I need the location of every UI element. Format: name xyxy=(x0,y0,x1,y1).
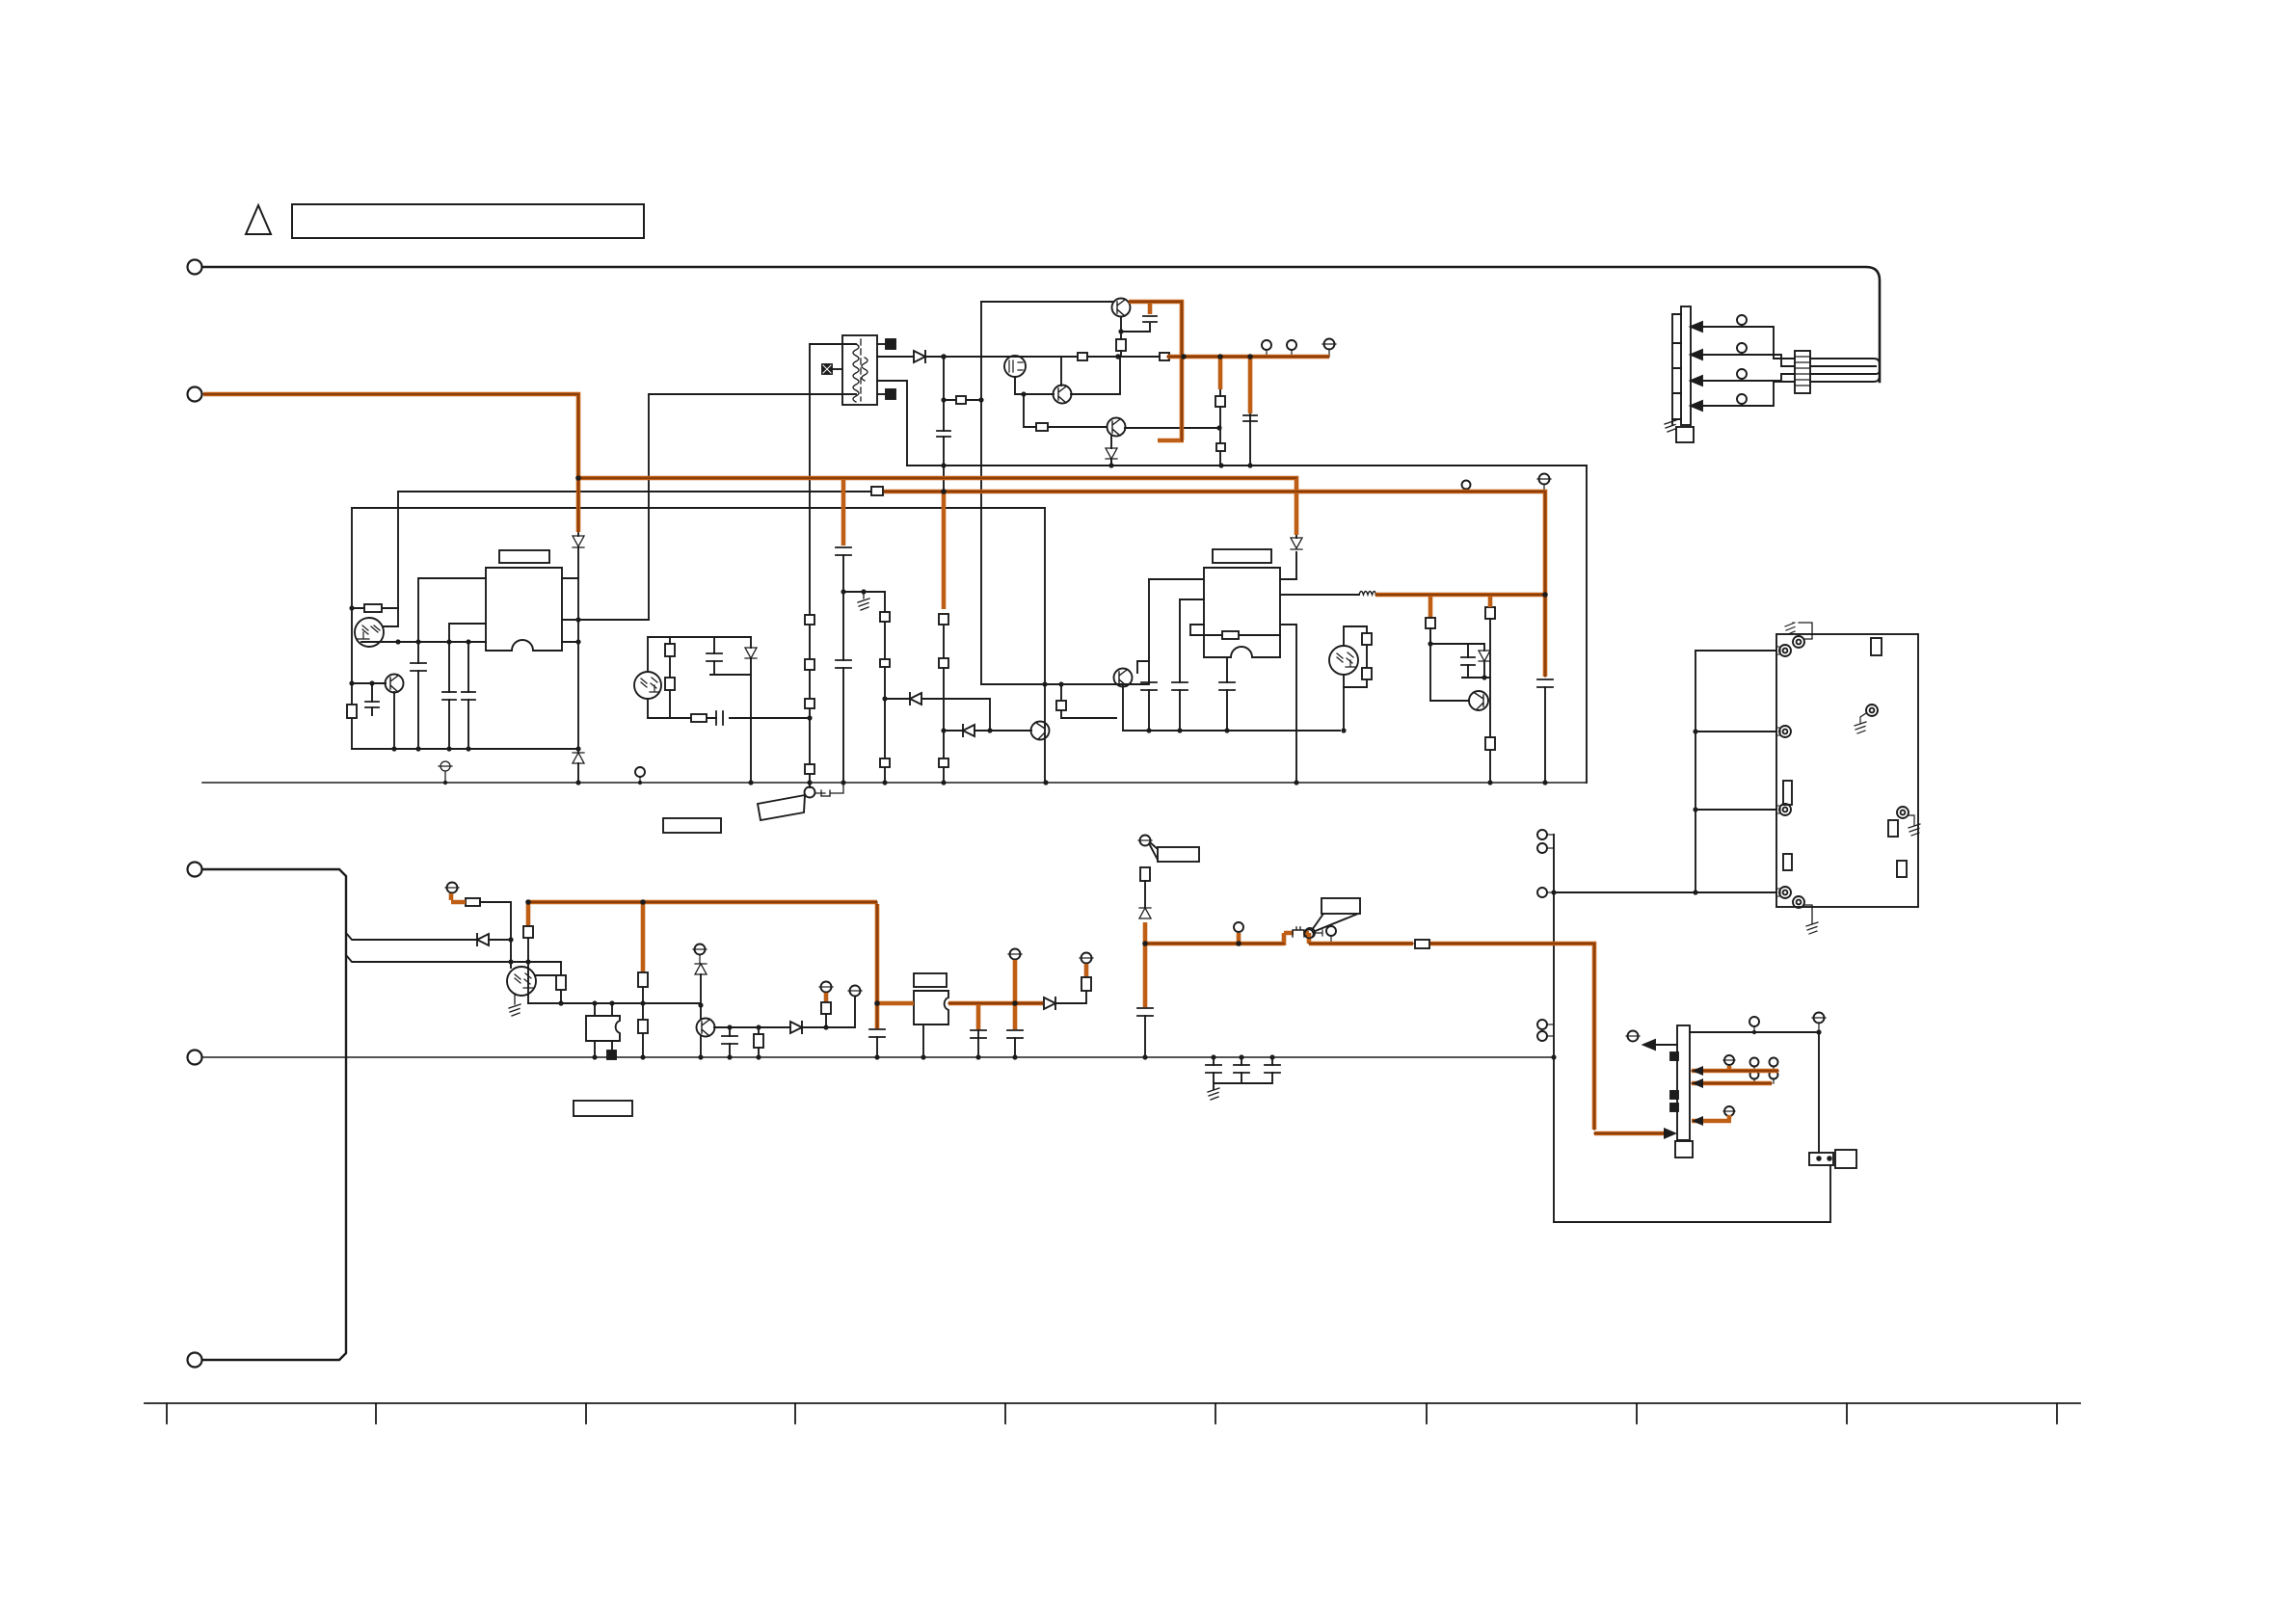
jumper pivot circle xyxy=(805,787,815,798)
terminal T4 xyxy=(188,1051,202,1065)
orange stub 1285 xyxy=(1237,933,1241,942)
capacitor C-1015 xyxy=(971,1030,986,1038)
jumper plug J2 xyxy=(1305,928,1315,938)
transistor Q7 xyxy=(1469,691,1488,710)
wire branch y975 xyxy=(346,933,511,940)
resistor R-695b xyxy=(665,678,675,690)
relay K1 coil xyxy=(1835,1150,1856,1168)
resistor R-667b xyxy=(638,1020,648,1033)
wire x1297 stub xyxy=(1249,414,1251,466)
wire branch y998 xyxy=(346,955,511,962)
transistor Q4 xyxy=(1031,722,1050,740)
wire Q11 base feedback xyxy=(981,301,1112,303)
resistor R-979a xyxy=(939,614,948,625)
wire x1192 xyxy=(1148,579,1150,731)
capacitor C-979 xyxy=(937,431,950,437)
wire vertical x840 xyxy=(809,344,811,783)
orange net E2 xyxy=(1375,593,1543,598)
resistor R-667a xyxy=(638,972,648,987)
eyelet E1 xyxy=(1779,645,1791,656)
wire rail y370 xyxy=(944,356,1160,358)
wire cn1 w3 xyxy=(1702,374,1795,381)
ruler ticks xyxy=(167,1403,2057,1423)
IC2 label box xyxy=(1213,549,1271,563)
optocoupler U-opto2 xyxy=(1329,646,1358,675)
pcb pad2 xyxy=(1783,781,1792,805)
terminal T5 xyxy=(188,1353,202,1368)
wire net D black xyxy=(398,491,871,492)
wire bottom link xyxy=(1554,1165,1830,1222)
label box L1 xyxy=(663,818,721,833)
ground G-pcbbot xyxy=(1806,922,1818,934)
wire big box top xyxy=(907,465,1587,466)
wire y998 right xyxy=(511,961,561,963)
wire IC1 right pins xyxy=(562,578,649,642)
IC1 label box xyxy=(499,550,549,563)
capacitor C-910 xyxy=(869,1029,885,1037)
wire Q13 collector xyxy=(1125,427,1220,429)
ground G-pcbtop xyxy=(1785,623,1795,634)
IC4 label box xyxy=(914,973,947,987)
junction ring F2 xyxy=(1305,930,1314,939)
wire IC2 pin648 xyxy=(1280,625,1296,783)
diode D-1066 xyxy=(790,1022,802,1033)
connector CN1 shell xyxy=(1676,427,1694,442)
eyelet E6 bottom xyxy=(1793,896,1804,908)
wire Q13 base xyxy=(1024,394,1107,427)
diode D-725 xyxy=(910,693,921,705)
transformer T1 box xyxy=(842,335,877,405)
wire x979 lower xyxy=(943,625,945,783)
wire block rail y777 xyxy=(352,748,578,750)
resistor R-inline1 xyxy=(1078,353,1087,360)
orange net B xyxy=(203,394,578,532)
capacitor C-1224 xyxy=(1172,682,1188,690)
resistor R-1163 xyxy=(1116,339,1126,351)
eyelet E5 top xyxy=(1793,636,1804,648)
wire opto2feed y661 xyxy=(648,636,751,638)
resistor R-695a xyxy=(665,644,675,656)
terminal crossed Q5 xyxy=(695,945,706,955)
ground G-opto3 xyxy=(509,994,521,1016)
orange cn2 row3 xyxy=(1692,1119,1731,1124)
transistor Q13 xyxy=(1108,418,1126,437)
resistor R-918b xyxy=(880,659,890,667)
terminal T1 xyxy=(188,260,202,275)
orange stub 1484 xyxy=(1428,597,1433,617)
orange stub 1015 xyxy=(976,1005,981,1029)
arrowheads on orange xyxy=(1664,1066,1703,1139)
terminal circ on D xyxy=(1462,481,1471,490)
wire mosfet source xyxy=(1015,377,1054,394)
resistor R-base2 xyxy=(1190,634,1280,636)
pad xfmr pin2 xyxy=(830,368,842,370)
terminal circles on rail xyxy=(1262,340,1271,350)
terminal crossed x1127 xyxy=(1081,953,1092,964)
connector circ pins xyxy=(1537,830,1547,839)
transistor Q12 xyxy=(1054,386,1072,404)
resistor R-1418b xyxy=(1362,668,1372,679)
transistor Q11 top xyxy=(1112,299,1131,317)
wire y415 row xyxy=(944,399,981,401)
wire xfmr pin1 xyxy=(810,343,856,345)
orange net F2 main xyxy=(1145,933,1666,1133)
orange stub 1266 xyxy=(1218,359,1223,389)
terminal crossed x1053 xyxy=(1010,949,1021,960)
transistor Q6 xyxy=(1114,669,1133,687)
orange stub 1297 xyxy=(1248,359,1253,413)
wire opto2drop xyxy=(647,637,649,672)
warning triangle xyxy=(246,205,271,234)
wire E corner down xyxy=(351,508,353,608)
orange stub 857 xyxy=(824,993,829,1001)
wire x1612 xyxy=(1553,835,1555,1222)
pcb pad3 xyxy=(1783,854,1792,870)
capacitor C-1192 xyxy=(1141,682,1157,690)
resistor R-1127 xyxy=(1081,977,1091,991)
zener DZ-727 xyxy=(695,964,707,974)
wire x667 resistors xyxy=(642,987,644,1057)
diode D-1345 xyxy=(1291,538,1302,549)
capacitor C-434 xyxy=(411,663,426,671)
terminal circ row2 a xyxy=(1750,1071,1759,1079)
wire pin1 y1071 xyxy=(1690,1032,1819,1153)
wire xfmr sec return xyxy=(877,381,907,466)
wire x875 xyxy=(842,555,844,783)
wire x434 xyxy=(418,578,486,749)
eyelet E3 xyxy=(1779,804,1791,815)
eyelet E4 xyxy=(1779,887,1791,898)
diode D-sec xyxy=(914,351,925,362)
orange net F reg xyxy=(877,1001,1043,1006)
ground G-caps xyxy=(1208,1088,1219,1100)
terminal crossed bus812 xyxy=(439,761,452,783)
resistor R-D xyxy=(871,487,883,495)
connector CN1 rail xyxy=(1672,314,1681,419)
terminal circ y1062 xyxy=(1749,1017,1759,1026)
resistor R-inline2 xyxy=(1160,353,1169,360)
terminal crossed x1188 xyxy=(1140,836,1151,846)
terminal stub y803 xyxy=(635,767,645,777)
zener DZ13 xyxy=(1106,448,1117,459)
terminal crossed D-end xyxy=(1539,474,1550,485)
wire xfmr pin3 (to net B) xyxy=(650,393,856,395)
transformer core dashes xyxy=(860,339,862,401)
orange net C xyxy=(576,478,1296,535)
wire opto1 emitter rail y666 xyxy=(361,641,486,643)
ribbon cable block xyxy=(1795,351,1810,393)
terminal circ row1 a xyxy=(1750,1058,1759,1067)
resistor R-787 xyxy=(754,1034,763,1048)
resistor R-1546t xyxy=(1485,607,1495,619)
terminal crossed row3 xyxy=(1724,1106,1734,1116)
wire pin2 y1084 arrow xyxy=(1650,1044,1677,1046)
ruler baseline xyxy=(145,1402,2080,1404)
terminal crossed x857 xyxy=(821,982,832,993)
regulator IC4 xyxy=(914,991,948,1024)
pad CN2 a xyxy=(1670,1052,1678,1060)
resistor R-548 xyxy=(523,926,533,938)
capacitor C-b1 xyxy=(1206,1065,1221,1073)
PCB board outline xyxy=(1776,634,1918,907)
wire D corner down xyxy=(397,492,399,608)
resistor R-opto1 xyxy=(352,607,398,609)
flag label F2 xyxy=(1312,914,1358,932)
wire Q13 emitter + zener xyxy=(1110,436,1112,466)
wire x548 xyxy=(527,938,529,1003)
optocoupler U-opto1 xyxy=(355,618,384,647)
orange top loop xyxy=(1129,302,1329,440)
pad CN2 b xyxy=(1670,1091,1678,1099)
wire F black seg xyxy=(480,902,511,968)
resistor R-918c xyxy=(880,758,890,767)
wire xfmr sec out xyxy=(877,356,914,358)
pad xfmr pin4 xyxy=(877,343,888,345)
resistor R-979m xyxy=(939,658,948,668)
relay K1 xyxy=(1809,1153,1833,1165)
diode D-758 xyxy=(963,725,974,736)
wire rail2 y758 xyxy=(1123,730,1340,732)
wire y926 xyxy=(1554,891,1776,893)
flag label F1 xyxy=(1150,842,1158,860)
connector CN2 body xyxy=(1677,1025,1690,1140)
resistor R-723 xyxy=(691,714,707,722)
connector CN1 body xyxy=(1681,306,1691,425)
wire y710 xyxy=(981,683,1149,685)
terminal crossed row1 xyxy=(1724,1055,1734,1065)
wire opto2 top xyxy=(1344,626,1367,646)
wire vertical x1018 xyxy=(980,302,982,684)
resistor R-415 xyxy=(956,396,966,404)
wire opto3 out xyxy=(536,962,561,1003)
eyelet E7 inside xyxy=(1866,705,1878,716)
zener DZ-600 xyxy=(573,753,584,763)
capacitor C-1053 xyxy=(1007,1030,1023,1038)
inductor L1 xyxy=(1359,592,1376,596)
capacitor C-Q1 xyxy=(365,702,379,707)
wire cn1 w1 xyxy=(1702,327,1795,359)
resistor R-1484 xyxy=(1426,618,1435,628)
transformer primary winding xyxy=(853,344,859,402)
wire IC2 pin C xyxy=(1280,578,1296,580)
wire x600 lower xyxy=(577,547,579,749)
ribbon out wires xyxy=(1810,359,1880,382)
op-amp IC2 xyxy=(1204,568,1280,657)
resistor R-1188 xyxy=(1140,867,1150,881)
terminal T3 xyxy=(188,863,202,877)
wire x1603 cap xyxy=(1544,687,1546,783)
orange cn2 stubs xyxy=(1727,1066,1732,1119)
resistor R-840c xyxy=(805,699,814,708)
terminal crossed y1034 xyxy=(850,986,861,997)
resistor R-979b xyxy=(939,758,948,767)
wire jumper drop xyxy=(809,783,811,787)
orange stub 1546 xyxy=(1488,597,1493,607)
capacitor C-486 xyxy=(462,692,475,700)
zener DZ-1188 xyxy=(1139,908,1151,918)
connector CN2 shell xyxy=(1675,1141,1693,1157)
wire x1085 xyxy=(1044,508,1046,783)
eyelet E8 inside xyxy=(1897,807,1909,818)
diode D-F2 xyxy=(1044,998,1055,1009)
wire x1224 xyxy=(1179,599,1181,731)
caps below bus xyxy=(1214,1057,1272,1089)
wire lower-left feed xyxy=(202,869,346,1360)
orange net F head xyxy=(451,893,466,902)
transformer secondary winding xyxy=(862,358,868,381)
capacitor C-741 xyxy=(707,653,722,661)
wire big box right xyxy=(1586,466,1588,783)
wire B drop x600 xyxy=(577,533,579,536)
plug on F2 bump xyxy=(1293,927,1314,939)
wire x486 xyxy=(467,642,469,749)
wire x1273 xyxy=(1226,657,1228,731)
zener DZ-779 xyxy=(745,648,757,658)
resistor R-F xyxy=(466,898,480,906)
wire bus AC return xyxy=(202,782,1587,784)
pcb pad5 xyxy=(1897,861,1907,877)
capacitor C-875a xyxy=(836,547,851,555)
wire x466 xyxy=(449,624,486,749)
wire top bus xyxy=(202,267,1880,382)
wire gate link xyxy=(1060,357,1062,386)
wire IC4 bottom xyxy=(922,1024,924,1057)
capacitor C-1603 xyxy=(1537,679,1553,687)
wire y614 branch xyxy=(843,591,885,593)
wire y758 xyxy=(944,730,1031,732)
resistor R-857 xyxy=(821,1002,831,1014)
wire Q12 to x1162 xyxy=(1071,357,1120,394)
capacitor C-750 xyxy=(716,711,723,725)
warning note box xyxy=(292,204,644,238)
terminal crossed corner xyxy=(1814,1013,1825,1024)
resistor chain x1266 xyxy=(1219,390,1221,466)
orange stub 1127 xyxy=(1084,964,1089,976)
wire y668 cluster xyxy=(1430,644,1490,783)
terminal crossed F-start xyxy=(447,883,458,893)
jumper plug xyxy=(815,783,843,796)
terminal crossed y1077 xyxy=(1628,1031,1639,1042)
resistor R-365 xyxy=(347,705,357,718)
orange net F main xyxy=(528,902,877,1028)
fuse FR-F xyxy=(1415,940,1429,948)
wire y745 xyxy=(648,699,810,718)
terminal circ x1381 xyxy=(1326,926,1336,936)
wire Qtop emitter xyxy=(1120,317,1122,339)
wire IC3 pins xyxy=(595,1003,612,1057)
wire jog x1027 xyxy=(989,699,991,731)
wire pcb links xyxy=(1695,651,1776,810)
ground G-896 xyxy=(858,592,869,610)
wire opto2 bottom xyxy=(1343,675,1345,731)
wire x673 feedback xyxy=(648,394,650,620)
wire x1015 cap xyxy=(977,1030,979,1037)
pad xfmr pin6 xyxy=(877,393,888,395)
optocoupler U-opto3 xyxy=(507,967,536,996)
resistor R-base13 xyxy=(1036,423,1048,431)
wire bus cold ground xyxy=(202,1056,1554,1058)
IC3 box xyxy=(586,1016,620,1041)
wire stub x1484 xyxy=(1429,606,1431,644)
terminal T2 xyxy=(188,387,202,402)
pad IC3 xyxy=(607,1051,616,1059)
transistor Q5 xyxy=(697,1019,715,1037)
wire y725 xyxy=(885,698,990,700)
resistor R-840a xyxy=(805,615,814,625)
wire net E black xyxy=(352,507,1045,509)
terminal crossed end xyxy=(1324,339,1335,350)
capacitor C-1297 xyxy=(1243,415,1257,421)
op-amp IC1 xyxy=(486,568,562,651)
resistor R-840b xyxy=(805,659,814,670)
wire y1041 xyxy=(528,1002,701,1004)
wire x1418 resistors xyxy=(1344,626,1367,687)
optocoupler U-opto4 xyxy=(634,672,661,699)
wire x918 xyxy=(884,592,886,783)
wire x365 down xyxy=(351,608,353,749)
capacitor C-466 xyxy=(442,692,456,700)
resistor R-840d xyxy=(805,764,814,774)
wire x1101 resistor leg xyxy=(1061,684,1116,718)
label box L3 xyxy=(574,1101,632,1116)
orange core lines xyxy=(203,302,1778,1133)
resistor R-1546 xyxy=(1485,737,1495,750)
orange cn2 row1 xyxy=(1692,1069,1778,1074)
snubber x979 xyxy=(943,357,945,492)
diode D-600 xyxy=(573,536,584,547)
terminal circ row1 b xyxy=(1770,1058,1778,1067)
resistor R-582 xyxy=(556,975,566,990)
orange stub 875 xyxy=(841,480,846,545)
diode D-975 xyxy=(477,934,489,945)
mosfet Q10 xyxy=(1004,356,1026,377)
wire cn1 w4 xyxy=(1702,382,1795,406)
capacitor C-b2 xyxy=(1234,1065,1249,1073)
capacitor C-top xyxy=(1143,316,1157,322)
terminal circ row2 b xyxy=(1770,1071,1778,1079)
orange net D xyxy=(884,492,1545,677)
wire y1066 xyxy=(714,997,855,1027)
transistor Q1 xyxy=(386,675,404,693)
orange stub 979 xyxy=(942,493,947,609)
zener DZ-1540 xyxy=(1479,651,1490,661)
pad CN2 c xyxy=(1670,1104,1678,1111)
orange net F2 drop xyxy=(1143,922,1148,1007)
capacitor C-1188 xyxy=(1137,1008,1153,1016)
wire IC2 left pins xyxy=(1149,579,1204,625)
wire C drop x1345 xyxy=(1295,479,1297,579)
zener DZ-1153 xyxy=(1110,460,1112,466)
capacitor C-757 xyxy=(722,1036,737,1044)
ground G-CN1 xyxy=(1665,420,1676,432)
wire 1546 link xyxy=(1489,619,1491,678)
capacitor C-b3 xyxy=(1265,1065,1280,1073)
wire cn1 w2 xyxy=(1702,355,1795,366)
orange cn2 row2 xyxy=(1692,1081,1772,1086)
capacitor C-875b xyxy=(836,660,851,668)
wire x413 down xyxy=(384,608,398,626)
terminal circ y968 xyxy=(1234,922,1243,932)
wire x1759 xyxy=(1695,651,1696,892)
resistor R-918a xyxy=(880,612,890,622)
eyelet E2 xyxy=(1779,726,1791,737)
wire IC2 coil pin y617 xyxy=(1280,594,1359,596)
jumper plug F2 xyxy=(1293,927,1304,937)
pcb pad4 xyxy=(1888,820,1898,837)
capacitor C-1523 xyxy=(1461,657,1475,665)
jumper lever xyxy=(758,795,805,820)
capacitor C-1273 xyxy=(1219,682,1235,690)
